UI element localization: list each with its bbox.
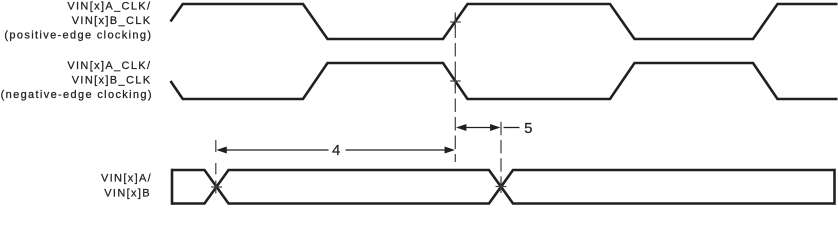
- svg-text:VIN[x]B_CLK: VIN[x]B_CLK: [72, 75, 152, 87]
- dashed line at data transition X2 (x=501): [500, 119, 502, 190]
- waveform CLK negative-edge (VIN[x]A_CLK / VIN[x]B_CLK inverted): [171, 63, 838, 99]
- svg-text:VIN[x]B_CLK: VIN[x]B_CLK: [72, 15, 152, 27]
- label VIN[x]A / VIN[x]B block: [101, 173, 152, 200]
- svg-text:4: 4: [332, 142, 340, 159]
- svg-text:(positive-edge clocking): (positive-edge clocking): [4, 30, 152, 42]
- dashed line at data transition X1 (x=216): [215, 140, 217, 174]
- waveform CLK positive-edge (VIN[x]A_CLK / VIN[x]B_CLK): [171, 4, 838, 39]
- dashed line at clock transition (x=455): [454, 13, 456, 163]
- cross tick at data X1 center: [211, 181, 222, 194]
- dimension arrow 4 (from X1 to clock edge): [216, 147, 455, 154]
- label VIN[x]A_CLK positive block: [4, 0, 152, 41]
- svg-text:VIN[x]A_CLK/: VIN[x]A_CLK/: [67, 0, 151, 12]
- cross tick at negative clock falling edge midpoint: [450, 74, 461, 88]
- svg-text:VIN[x]B: VIN[x]B: [104, 187, 151, 199]
- cross tick at positive clock rising edge midpoint: [450, 15, 461, 29]
- svg-text:VIN[x]A_CLK/: VIN[x]A_CLK/: [67, 60, 151, 72]
- svg-text:(negative-edge clocking): (negative-edge clocking): [1, 89, 153, 101]
- svg-text:VIN[x]A/: VIN[x]A/: [101, 173, 152, 185]
- svg-text:5: 5: [524, 120, 532, 137]
- dimension arrow 5 (from clock edge to X2): [456, 124, 520, 131]
- label VIN[x]A_CLK negative block: [1, 60, 153, 101]
- waveform data bus VIN[x]A / VIN[x]B: [172, 169, 835, 205]
- cross tick at data X2 center: [496, 180, 507, 193]
